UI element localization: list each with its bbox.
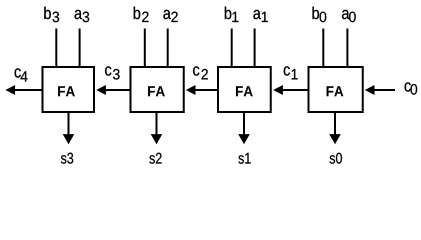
label FA (U2) [148,86,165,96]
wire input b1 [231,29,233,68]
wire input b2 [144,29,146,68]
wire sum s0 [334,113,336,135]
label c2 [193,66,199,75]
wire sum s1 [243,113,245,135]
wire input a3 [79,29,81,68]
wire carry c2 [195,89,218,91]
arrowhead carry c3 [96,85,106,95]
wire input b0 [322,29,324,68]
arrowhead sum s1 [238,134,250,144]
wire sum s3 [68,113,70,135]
label b2 (input) [134,7,141,19]
label c3 [105,66,111,75]
wire carry c1 [282,89,309,91]
label FA (U3) [58,86,75,96]
label c1 [284,66,290,75]
label b1 (input) [225,7,232,19]
wire carry-out c4 [14,89,41,91]
full adder U1 (FA) box [218,67,271,112]
arrowhead carry c1 [273,85,283,95]
arrowhead sum s0 [329,134,341,144]
label c0 [405,82,411,91]
label b3 (input) [44,7,51,19]
wire carry c3 [105,89,130,91]
label b0 (input) [312,7,319,19]
label FA (U0) [327,86,344,96]
arrowhead carry-out c4 [5,85,15,95]
full adder U0 (FA) box [309,67,363,112]
label a0 (input) [342,10,349,19]
arrowhead sum s2 [151,134,163,144]
wire carry-in c0 [374,89,395,91]
label a1 (input) [253,10,260,19]
wire input b3 [55,29,57,68]
label a3 (input) [75,10,82,19]
full adder U2 (FA) box [131,67,184,112]
label s2 [149,153,161,164]
wire input a1 [254,29,256,68]
wire sum s2 [156,113,158,135]
label FA (U1) [236,86,253,96]
arrowhead carry c2 [186,85,196,95]
label c4 [15,68,21,77]
label s3 [61,153,73,164]
label s1 [238,153,250,164]
label a2 (input) [163,10,170,19]
wire input a2 [167,29,169,68]
arrowhead sum s3 [63,134,75,144]
label s0 [330,153,342,164]
wire input a0 [346,29,348,68]
arrowhead carry-in c0 [365,85,375,95]
full adder U3 (FA) box [43,67,95,112]
